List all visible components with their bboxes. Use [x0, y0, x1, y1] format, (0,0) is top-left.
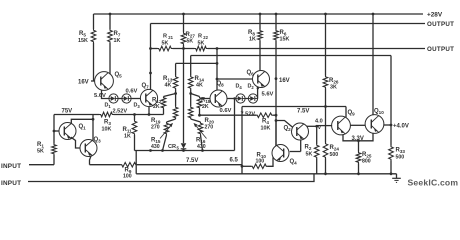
- wire rail to common: [135, 151, 137, 174]
- svg-text:5K: 5K: [187, 39, 194, 45]
- resistor R27: [181, 14, 195, 142]
- junction R7 on +28V rail: [109, 13, 112, 16]
- wire Q3 emitter to node: [90, 164, 121, 166]
- wire D2 to Q6 emitter: [257, 87, 259, 99]
- svg-text:D2: D2: [248, 84, 255, 90]
- junction R15 foot: [161, 149, 164, 152]
- svg-text:SeekIC.com: SeekIC.com: [408, 178, 459, 188]
- svg-text:2.52V: 2.52V: [113, 109, 128, 115]
- wire feedback right column: [390, 56, 392, 146]
- svg-text:100: 100: [256, 159, 265, 165]
- svg-text:R15: R15: [151, 138, 161, 144]
- wire R10 to Q4 emitter: [268, 157, 274, 166]
- node 3.3V label: [352, 136, 364, 142]
- svg-text:5.6V: 5.6V: [262, 92, 274, 98]
- junction +4.0V node: [390, 124, 393, 127]
- wire R9 to 6.5 node: [137, 164, 242, 166]
- svg-text:0.6V: 0.6V: [220, 108, 232, 114]
- junction R24 foot: [324, 172, 327, 175]
- svg-text:2K: 2K: [153, 104, 160, 110]
- node 16V left: [78, 80, 95, 86]
- svg-text:Q6: Q6: [247, 70, 255, 76]
- svg-text:15K: 15K: [280, 37, 290, 43]
- diode D4: [236, 84, 246, 104]
- junction rail left: [149, 149, 152, 152]
- wire Q3 collector riser: [92, 115, 94, 141]
- transistor Q7: [140, 83, 157, 107]
- junction R11 top: [133, 113, 136, 116]
- svg-text:4K: 4K: [196, 83, 203, 89]
- junction R26 top: [324, 13, 327, 16]
- svg-text:1K: 1K: [114, 38, 121, 44]
- svg-text:Q7: Q7: [142, 83, 150, 89]
- junction below R13: [174, 92, 177, 95]
- svg-text:R25: R25: [362, 152, 372, 158]
- wire Q9 collector: [345, 107, 347, 118]
- wire Q9 base: [317, 125, 332, 127]
- svg-text:R13: R13: [163, 76, 173, 82]
- watermark SeekIC.com: [408, 178, 459, 188]
- transistor Q2: [284, 123, 309, 140]
- svg-text:75V: 75V: [62, 109, 73, 115]
- node 16V right: [275, 77, 290, 84]
- svg-text:R5: R5: [79, 31, 86, 37]
- wire output line upper: [151, 23, 426, 25]
- svg-text:270: 270: [205, 125, 214, 131]
- wire common line: [136, 173, 396, 175]
- wire Q1 emitter to Q3 base: [71, 137, 80, 148]
- wire 7.5V rail: [135, 150, 235, 152]
- wire R10 left: [242, 165, 251, 167]
- svg-text:D4: D4: [236, 84, 243, 90]
- resistor R7: [108, 14, 121, 74]
- wire Q9 emitter to Q10 base: [350, 124, 365, 126]
- wire Q7 emitter: [148, 107, 150, 115]
- junction R25 top: [357, 139, 360, 142]
- wire R13 top link: [176, 62, 217, 64]
- junction R33 foot: [390, 172, 393, 175]
- svg-text:430: 430: [197, 144, 206, 150]
- svg-text:R27: R27: [186, 32, 196, 38]
- svg-text:R3: R3: [104, 120, 111, 126]
- svg-text:CR: CR: [168, 144, 176, 150]
- junction Q1 collector riser: [92, 118, 95, 121]
- node 5.6V right: [262, 92, 274, 98]
- node 7.5V right label: [297, 109, 309, 115]
- svg-text:3K: 3K: [330, 85, 337, 91]
- junction Q8 collector top: [216, 47, 219, 50]
- junction Q6 base tap: [216, 78, 219, 81]
- trimmer arrow right: [194, 123, 207, 139]
- node OUTPUT lower label: [427, 46, 454, 53]
- wire feedback line: [191, 55, 391, 57]
- wire collector bus / output line lower: [151, 48, 426, 50]
- junction Q1 base: [53, 130, 56, 133]
- svg-text:2K: 2K: [202, 104, 209, 110]
- resistor R33: [389, 146, 406, 174]
- junction Q2 base tap: [275, 119, 278, 122]
- junction R26 on box top: [324, 105, 327, 108]
- svg-text:5K: 5K: [306, 152, 313, 158]
- svg-text:22: 22: [203, 35, 208, 40]
- svg-text:R26: R26: [329, 78, 339, 84]
- resistor R8: [248, 14, 262, 71]
- svg-text:Q2: Q2: [284, 126, 292, 132]
- wire Q4 base link: [290, 151, 301, 153]
- svg-text:R12: R12: [152, 98, 162, 104]
- svg-text:Q5: Q5: [115, 72, 123, 78]
- svg-text:16V: 16V: [78, 80, 89, 86]
- node 5.6V left: [94, 93, 106, 99]
- transistor Q1: [59, 123, 86, 140]
- wire Q3 emitter: [90, 156, 92, 165]
- svg-text:D3: D3: [134, 103, 141, 109]
- resistor R24: [323, 143, 339, 174]
- svg-text:R1: R1: [37, 142, 44, 148]
- wire Q7 collector column: [150, 24, 152, 90]
- svg-text:OUTPUT: OUTPUT: [427, 21, 454, 28]
- junction R16 foot: [201, 149, 204, 152]
- svg-text:R19: R19: [151, 118, 161, 124]
- wire R4 to R6 column: [273, 114, 276, 116]
- junction 4.0V node: [315, 125, 318, 128]
- resistor R2: [305, 126, 320, 174]
- resistor R16: [191, 119, 206, 151]
- node 0.6V left: [126, 89, 138, 95]
- svg-text:Q1: Q1: [79, 124, 87, 130]
- svg-text:500: 500: [330, 152, 339, 158]
- svg-text:7.5V: 7.5V: [297, 109, 309, 115]
- svg-text:Q9: Q9: [348, 110, 356, 116]
- svg-text:430: 430: [151, 144, 160, 150]
- resistor R10: [251, 153, 268, 169]
- wire Q2 collector: [307, 125, 317, 127]
- transistor Q6: [247, 70, 270, 88]
- diode D3: [122, 94, 141, 109]
- junction at Q8 collector column: [216, 62, 219, 65]
- junction R8 top: [259, 13, 262, 16]
- svg-text:4.0: 4.0: [315, 119, 323, 125]
- resistor R3: [100, 112, 114, 132]
- wire inner box left: [241, 107, 243, 174]
- wire D1-D3: [118, 98, 122, 100]
- node +4.0V label: [393, 124, 409, 130]
- resistor R6: [274, 14, 290, 146]
- svg-text:Q4: Q4: [290, 159, 298, 165]
- transistor Q4: [272, 145, 297, 166]
- svg-text:Q10: Q10: [374, 109, 384, 115]
- node OUTPUT upper label: [427, 21, 454, 28]
- resistor R5: [78, 14, 96, 81]
- svg-text:R: R: [198, 34, 202, 40]
- svg-text:21: 21: [168, 35, 173, 40]
- trimmer arrow left: [160, 123, 173, 139]
- svg-text:+28V: +28V: [427, 12, 443, 19]
- wire Q1 base: [54, 130, 59, 132]
- wire Q8 collector column: [216, 49, 218, 91]
- junction R27 on lower output rail: [182, 47, 185, 50]
- junction Q10 collector top: [372, 13, 375, 16]
- wire R18 to R4: [200, 114, 257, 116]
- resistor R13: [163, 63, 178, 93]
- resistor R22: [195, 34, 209, 51]
- svg-text:10K: 10K: [102, 127, 112, 133]
- junction diode row tap: [233, 97, 235, 99]
- wire input lower: [28, 174, 314, 182]
- transistor Q9: [332, 110, 356, 135]
- svg-text:100: 100: [123, 174, 132, 180]
- junction on Q7 collector column: [149, 72, 152, 75]
- svg-text:1K: 1K: [124, 134, 131, 140]
- junction R6 top: [275, 13, 278, 16]
- svg-text:7.5V: 7.5V: [186, 158, 198, 164]
- resistor R25: [356, 141, 372, 174]
- svg-text:6.5: 6.5: [230, 158, 239, 164]
- svg-text:R20: R20: [205, 118, 215, 124]
- node 4.0V label: [315, 119, 323, 132]
- resistor R4: [256, 113, 273, 132]
- wire R4 column: [234, 99, 236, 151]
- junction below R14: [189, 92, 192, 95]
- wire Q5 emitter: [102, 90, 109, 99]
- junction Q7 collector on lower output: [149, 47, 152, 50]
- svg-text:10K: 10K: [261, 126, 271, 132]
- resistor R19: [151, 94, 178, 131]
- svg-text:Q8: Q8: [217, 81, 225, 87]
- wire D3 to Q7 base: [131, 98, 140, 100]
- transistor Q3: [80, 137, 101, 157]
- junction Q7 emitter: [148, 113, 151, 116]
- wire Q8 base stub: [202, 98, 210, 100]
- svg-text:Q3: Q3: [94, 137, 102, 143]
- junction 6.5 node: [241, 165, 244, 168]
- resistor R9: [121, 162, 138, 179]
- svg-text:INPUT: INPUT: [1, 163, 21, 170]
- wire Q8 emitter to D4: [227, 98, 236, 100]
- resistor R14: [188, 56, 204, 94]
- svg-text:0.6V: 0.6V: [126, 89, 138, 95]
- svg-text:5K: 5K: [198, 41, 205, 47]
- diode D1: [105, 94, 119, 109]
- junction R25 foot: [357, 172, 360, 175]
- svg-text:R11: R11: [123, 127, 133, 133]
- resistor R21: [158, 34, 174, 51]
- wire Q10 collector column: [372, 14, 374, 115]
- svg-text:270: 270: [151, 125, 160, 131]
- junction CR5 foot: [182, 149, 185, 152]
- resistor R15: [151, 119, 176, 151]
- svg-text:4K: 4K: [165, 83, 172, 89]
- wire +28V supply rail: [94, 13, 424, 15]
- svg-text:500: 500: [396, 155, 405, 161]
- wire input upper: [29, 164, 54, 166]
- wire R1 to 75V line: [53, 115, 55, 132]
- wire D4-D2: [245, 98, 248, 100]
- svg-text:R16: R16: [196, 138, 206, 144]
- junction R4 wire: [275, 114, 278, 117]
- svg-text:16V: 16V: [279, 78, 290, 84]
- junction D2-Q6: [257, 87, 259, 89]
- svg-text:7.52V: 7.52V: [241, 111, 256, 117]
- resistor R18: [191, 94, 211, 116]
- wire Q2 base: [276, 121, 292, 128]
- svg-text:1K: 1K: [249, 37, 256, 43]
- node INPUT lower label: [1, 180, 21, 187]
- diode D2: [248, 84, 258, 104]
- svg-text:R24: R24: [330, 145, 340, 151]
- svg-text:5.6V: 5.6V: [94, 93, 106, 99]
- wire inner box top: [242, 106, 346, 108]
- wire Q6 base: [217, 78, 253, 80]
- node +28V label: [427, 12, 443, 19]
- wire Q1 collector: [71, 119, 93, 124]
- wire 75V line: [54, 114, 100, 116]
- svg-text:R18: R18: [201, 98, 211, 104]
- resistor R12: [152, 94, 176, 115]
- junction R27 top: [182, 13, 185, 16]
- svg-text:R14: R14: [195, 76, 205, 82]
- svg-text:R33: R33: [396, 148, 406, 154]
- wire Q2 emitter: [300, 140, 302, 152]
- node INPUT upper label: [1, 163, 21, 170]
- resistor R1: [37, 131, 56, 165]
- transistor Q8: [210, 81, 227, 107]
- svg-text:INPUT: INPUT: [1, 180, 21, 187]
- resistor R20: [188, 94, 214, 131]
- node 6.5 label: [230, 158, 239, 164]
- svg-text:15K: 15K: [78, 38, 88, 44]
- svg-text:R8: R8: [248, 30, 255, 36]
- svg-text:R2: R2: [305, 145, 312, 151]
- wire R3 to R12: [114, 114, 164, 116]
- svg-text:R: R: [163, 34, 167, 40]
- svg-text:OUTPUT: OUTPUT: [427, 46, 454, 53]
- svg-text:R7: R7: [114, 31, 121, 37]
- svg-text:5K: 5K: [37, 149, 44, 155]
- ground: [392, 174, 401, 183]
- svg-text:5K: 5K: [162, 41, 169, 47]
- svg-text:D1: D1: [105, 103, 112, 109]
- node 2.52V: [113, 109, 128, 115]
- svg-text:+4.0V: +4.0V: [393, 124, 409, 130]
- svg-text:800: 800: [362, 159, 371, 165]
- zener CR5: [168, 142, 186, 151]
- resistor R26: [323, 14, 339, 143]
- svg-text:R4: R4: [262, 119, 269, 125]
- transistor Q10: [365, 109, 384, 134]
- node 7.5V mid label: [186, 158, 198, 164]
- resistor R11: [123, 115, 137, 151]
- wire Q9 bottom to 3.3V: [343, 133, 373, 141]
- wire Q10 emitter to +4.0V: [383, 124, 391, 126]
- node 0.6V right: [220, 108, 232, 114]
- wire Q4 collector: [275, 121, 277, 146]
- svg-text:R6: R6: [280, 30, 287, 36]
- transistor Q5: [95, 72, 123, 91]
- node 75V label: [62, 109, 73, 115]
- junction R18 bottom: [198, 114, 201, 117]
- node 7.52V: [241, 111, 256, 117]
